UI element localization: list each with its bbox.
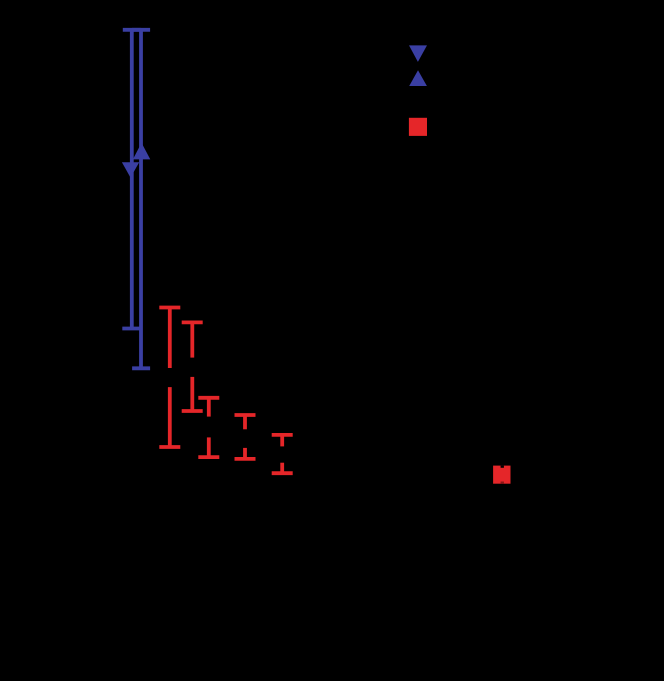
R4 lower bar segment [243, 448, 247, 459]
R2 bottom cap [182, 409, 203, 413]
R4 bottom cap [235, 457, 256, 461]
R2 lower bar segment [190, 377, 194, 411]
R4 top cap [235, 413, 256, 417]
R1 upper bar segment [168, 308, 172, 369]
R5 top cap [272, 433, 293, 437]
legend marker: red square [409, 118, 427, 136]
R5 upper bar segment [280, 435, 284, 447]
R1 lower bar segment [168, 387, 172, 447]
R2 upper bar segment [190, 322, 194, 357]
errorbar B1 (blue series, triangle-up point): vertical bar [139, 30, 143, 369]
errorbar B2 bottom cap [122, 327, 140, 331]
errorbar B2 (blue series, triangle-down point): vertical bar [130, 30, 134, 329]
R1 top cap [159, 306, 180, 310]
legend marker: blue triangle-up [409, 70, 427, 86]
marker: blue triangle-down data point [122, 162, 139, 177]
errorbar R3 (red series) [198, 398, 219, 457]
errorbar R1 (red series) [159, 308, 180, 448]
marker: red square data point [493, 466, 510, 484]
errorbar B2 top cap [123, 28, 141, 32]
faint dark overlay at red square bottom edge [501, 482, 504, 484]
R5 lower bar segment [280, 463, 284, 474]
R2 top cap [182, 320, 203, 324]
R3 upper bar segment [207, 398, 211, 417]
black notch over red square (overlaid hidden error bar) [501, 466, 504, 468]
legend marker: blue triangle-down [409, 45, 427, 62]
errorbar R4 (red series) [235, 415, 256, 459]
errorbar R5 (red series) [272, 435, 293, 473]
R3 top cap [198, 396, 219, 400]
marker: blue triangle-up data point [133, 143, 150, 160]
errorbar R2 (red series) [182, 322, 203, 411]
R3 lower bar segment [207, 437, 211, 457]
R1 bottom cap [159, 445, 180, 449]
errorbar B1 top cap [132, 28, 150, 32]
R4 upper bar segment [243, 415, 247, 429]
errorbar B1 bottom cap [132, 366, 150, 370]
R5 bottom cap [272, 471, 293, 475]
R3 bottom cap [198, 455, 219, 459]
